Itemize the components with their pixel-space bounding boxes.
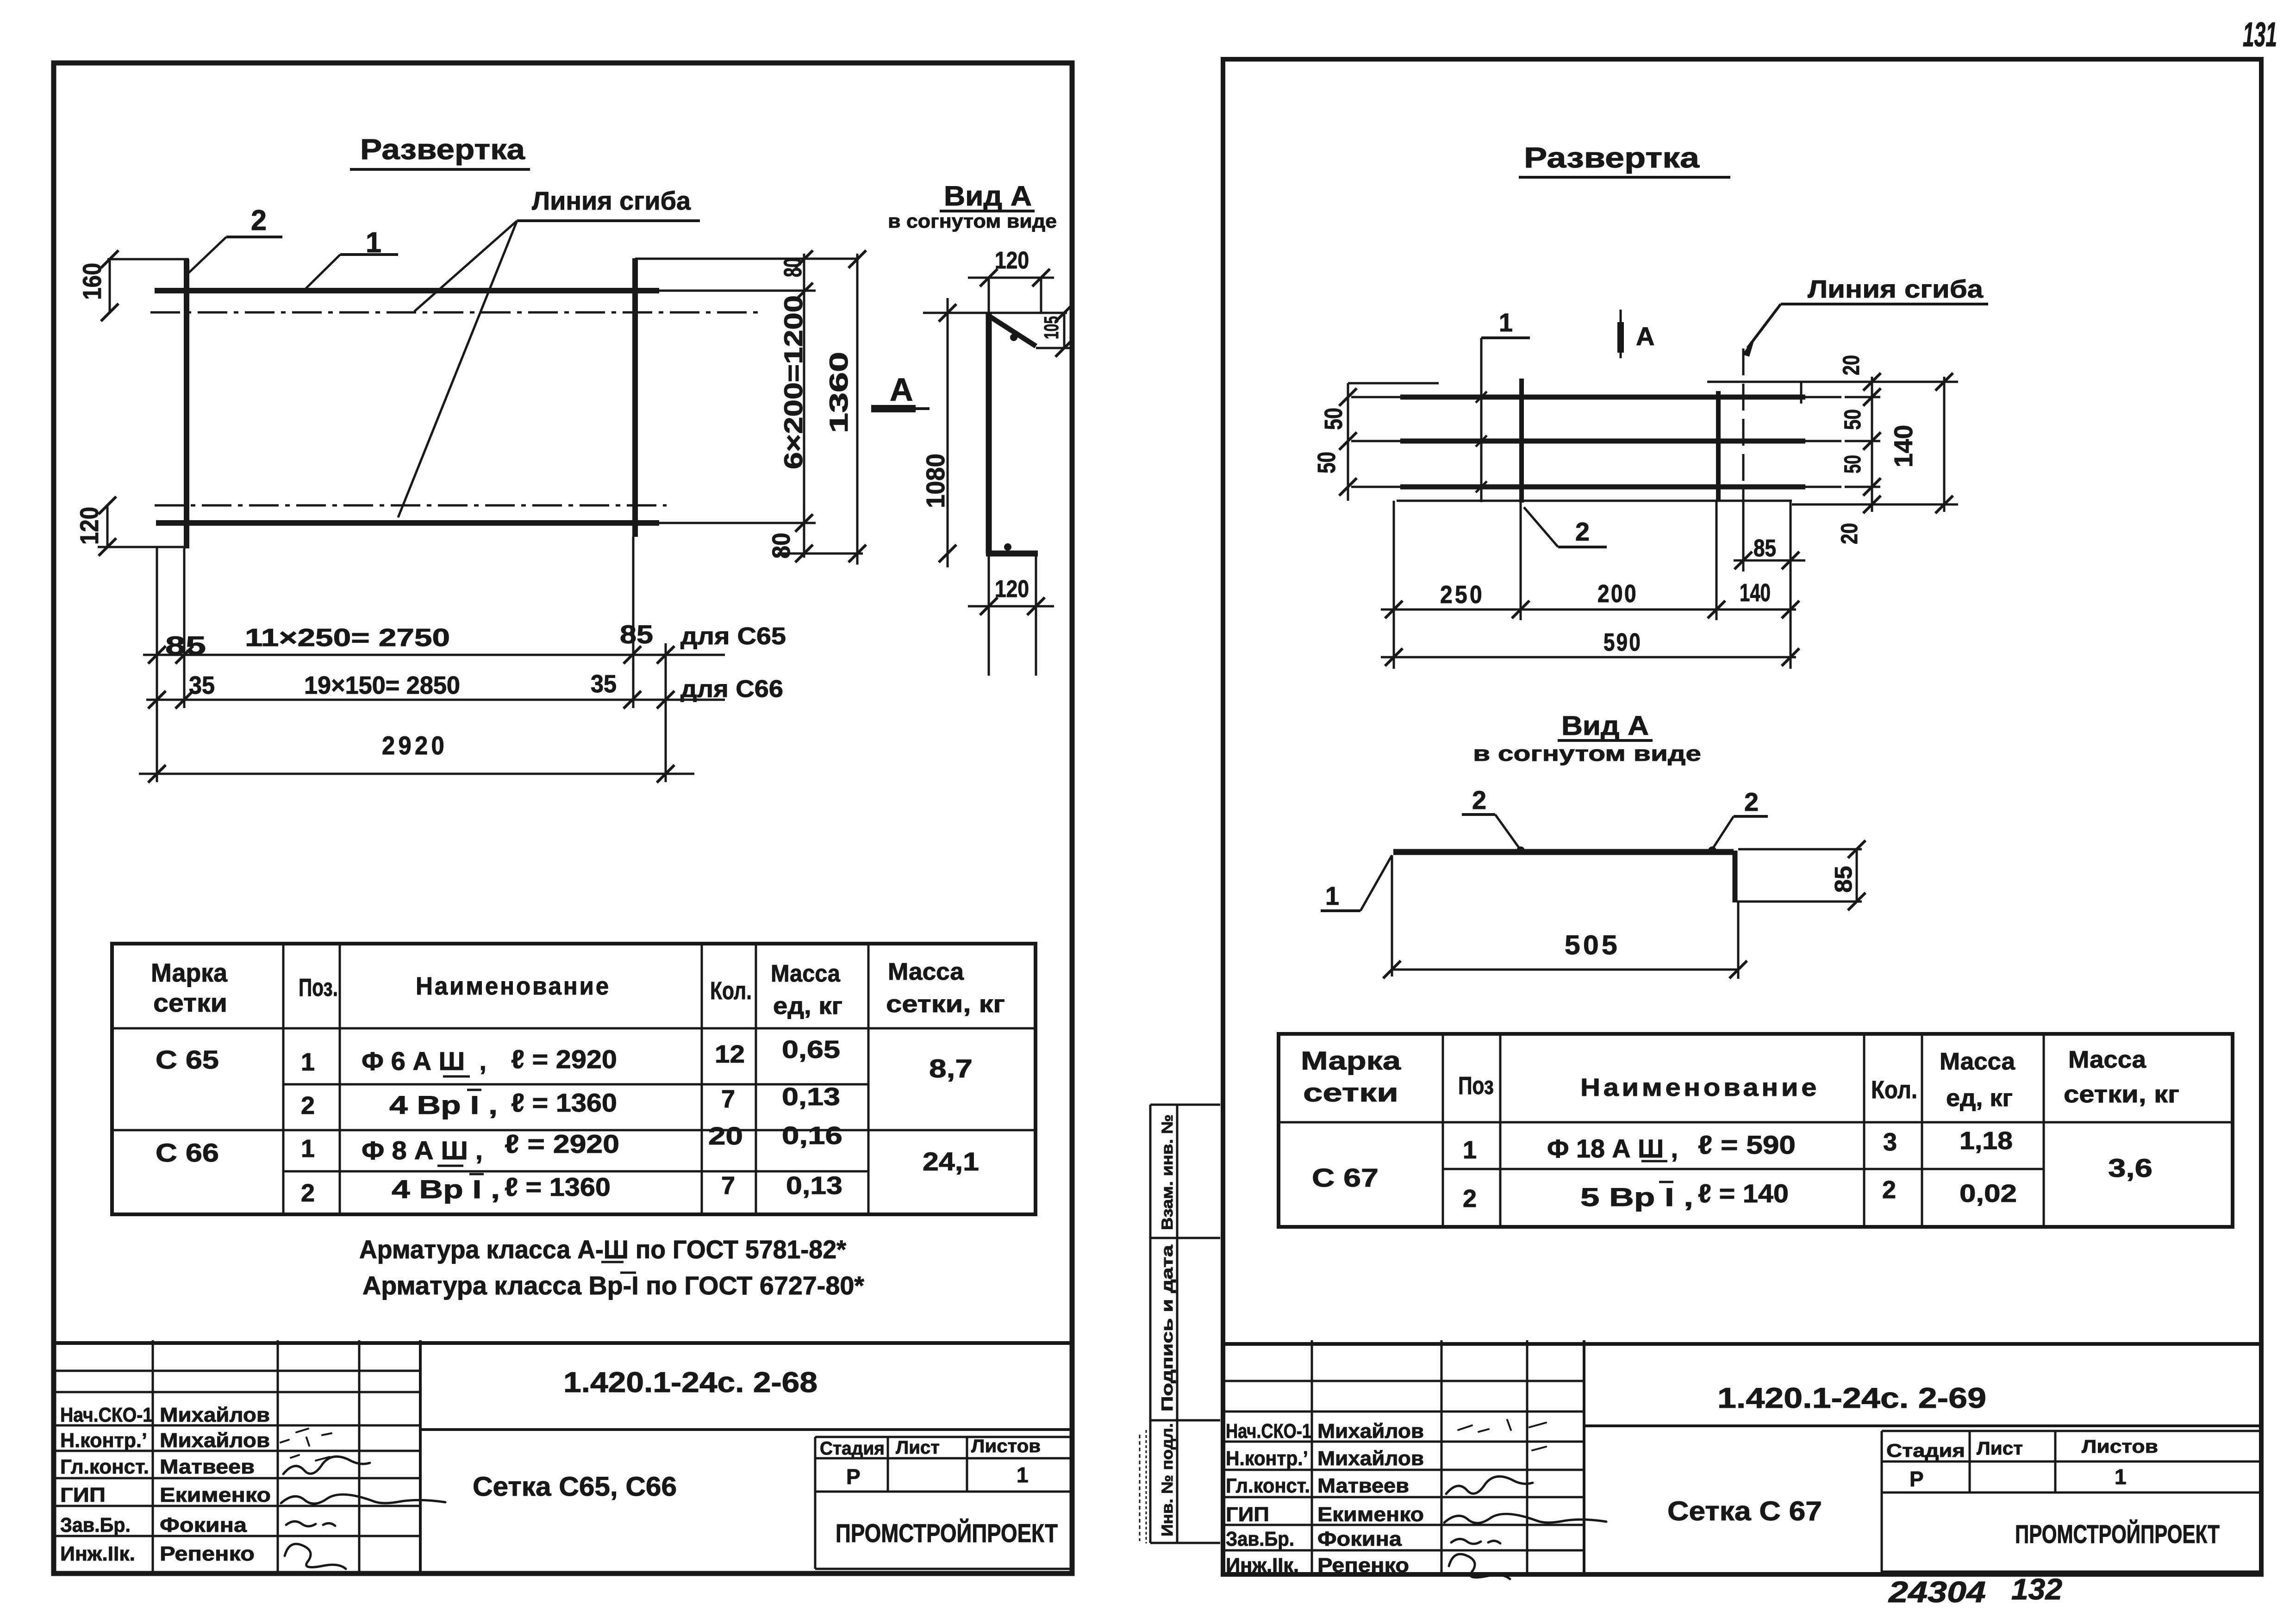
svg-text:140: 140 — [1740, 579, 1771, 607]
svg-text:132: 132 — [2011, 1573, 2062, 1606]
svg-text:Развертка: Развертка — [1524, 142, 1700, 174]
svg-text:Р: Р — [846, 1465, 861, 1489]
svg-text:0,16: 0,16 — [782, 1122, 842, 1150]
svg-text:для С66: для С66 — [680, 676, 783, 703]
svg-text:590: 590 — [1603, 628, 1642, 656]
svg-text:2: 2 — [1463, 1185, 1477, 1213]
svg-text:12: 12 — [715, 1040, 745, 1068]
title block sheet 2 stage box — [1882, 1430, 2261, 1432]
svg-text:2: 2 — [251, 205, 267, 236]
svg-text:Екименко: Екименко — [1317, 1503, 1424, 1526]
svg-text:Р: Р — [1909, 1467, 1924, 1491]
sheet 2 border frame — [1223, 59, 2261, 1574]
svg-text:Ф 18 А Ш ,: Ф 18 А Ш , — [1547, 1134, 1678, 1163]
svg-text:А: А — [1636, 322, 1654, 351]
svg-text:сетки, кг: сетки, кг — [886, 991, 1005, 1018]
bent view: bottom leg — [986, 551, 1038, 557]
svg-text:Гл.конст.: Гл.конст. — [60, 1455, 149, 1478]
svg-text:4 Вр I ,: 4 Вр I , — [389, 1090, 498, 1119]
svg-text:ℓ = 140: ℓ = 140 — [1698, 1179, 1789, 1208]
svg-text:ℓ = 2920: ℓ = 2920 — [511, 1045, 617, 1074]
svg-text:Масса: Масса — [888, 958, 964, 985]
title block sheet 2 doc number cell — [1584, 1424, 2261, 1427]
svg-text:20: 20 — [1836, 523, 1862, 544]
svg-text:1,18: 1,18 — [1959, 1127, 2013, 1155]
svg-text:1080: 1080 — [921, 454, 950, 508]
svg-text:131: 131 — [2243, 15, 2277, 54]
svg-text:5 Вр I ,: 5 Вр I , — [1580, 1182, 1693, 1212]
wire 2 right vertical bar — [632, 258, 638, 537]
svg-text:Сетка С 67: Сетка С 67 — [1667, 1496, 1822, 1526]
svg-text:Зав.Бр.: Зав.Бр. — [1226, 1528, 1294, 1550]
sheet 2 fold line (dashed) — [1742, 348, 1745, 502]
svg-text:Матвеев: Матвеев — [1317, 1474, 1409, 1497]
dim row 85 / 11x250=2750 / 85 (для С65) — [143, 654, 725, 656]
svg-text:2: 2 — [301, 1179, 315, 1207]
svg-text:Н.контр.’: Н.контр.’ — [1226, 1447, 1308, 1470]
svg-text:Масса: Масса — [1940, 1048, 2015, 1075]
svg-text:85: 85 — [165, 631, 206, 660]
svg-text:2: 2 — [1882, 1176, 1896, 1204]
svg-text:С 66: С 66 — [156, 1138, 219, 1167]
inv strip boxes — [1150, 1104, 1220, 1106]
sheet 2 dim row 250/200/140 — [1381, 609, 1796, 611]
svg-text:Инж.IIк.: Инж.IIк. — [60, 1542, 135, 1565]
svg-text:Поз: Поз — [1458, 1072, 1494, 1100]
wire 2 left vertical bar — [184, 259, 189, 548]
svg-text:1: 1 — [1325, 881, 1339, 910]
svg-text:ГИП: ГИП — [60, 1484, 106, 1506]
svg-text:4 Вр I ,: 4 Вр I , — [392, 1175, 500, 1204]
svg-text:Поз.: Поз. — [299, 974, 338, 1001]
svg-text:Фокина: Фокина — [160, 1514, 247, 1536]
svg-text:50: 50 — [1840, 455, 1865, 473]
svg-text:11×250= 2750: 11×250= 2750 — [245, 624, 450, 652]
title block sheet 1 stage box — [815, 1436, 1073, 1438]
fold line top (dash-dot) — [150, 311, 759, 314]
sheet 2 dims right (20/50/50/20) — [1801, 381, 1958, 383]
svg-text:Взам. инв. №: Взам. инв. № — [1159, 1114, 1176, 1230]
svg-text:2: 2 — [301, 1092, 315, 1119]
svg-text:ПРОМСТРОЙПРОЕКТ: ПРОМСТРОЙПРОЕКТ — [836, 1518, 1058, 1548]
bent view: dim 120 bottom — [988, 553, 990, 676]
svg-text:250: 250 — [1440, 581, 1485, 609]
svg-text:1: 1 — [1499, 308, 1513, 337]
svg-text:2: 2 — [1744, 787, 1759, 816]
sheet 2 dims left (50/50) — [1347, 383, 1349, 501]
sheet 2 plate edges — [1348, 382, 1439, 385]
svg-text:80: 80 — [767, 533, 795, 559]
svg-text:20: 20 — [708, 1122, 743, 1150]
svg-text:120: 120 — [995, 247, 1029, 274]
svg-text:50: 50 — [1840, 409, 1865, 430]
svg-text:50: 50 — [1313, 452, 1341, 473]
title block sheet 2 frame — [1223, 1342, 2261, 1346]
title block sheet 1 doc number cell — [420, 1428, 1073, 1431]
svg-text:1: 1 — [1463, 1136, 1477, 1164]
svg-text:Инж.IIк.: Инж.IIк. — [1226, 1554, 1299, 1577]
svg-text:Михайлов: Михайлов — [160, 1429, 270, 1452]
svg-text:24,1: 24,1 — [923, 1147, 979, 1176]
svg-text:Репенко: Репенко — [160, 1542, 255, 1565]
svg-text:С 67: С 67 — [1312, 1163, 1379, 1192]
spec table sheet 1 — [112, 944, 1036, 1214]
svg-text:ед, кг: ед, кг — [773, 993, 842, 1020]
svg-text:Зав.Бр.: Зав.Бр. — [60, 1514, 131, 1536]
svg-text:Листов: Листов — [971, 1436, 1041, 1456]
svg-text:ℓ = 2920: ℓ = 2920 — [505, 1129, 619, 1158]
svg-text:505: 505 — [1565, 930, 1620, 960]
bottom dim extension lines — [156, 547, 158, 782]
svg-text:Арматура класса Вр-I по ГОСТ 6: Арматура класса Вр-I по ГОСТ 6727-80* — [362, 1271, 864, 1300]
svg-text:Лист: Лист — [1977, 1438, 2023, 1459]
stamp marks left of strip — [1139, 1435, 1141, 1541]
svg-text:Стадия: Стадия — [1886, 1441, 1965, 1461]
svg-text:1: 1 — [301, 1048, 315, 1076]
svg-text:1360: 1360 — [824, 352, 853, 433]
svg-text:80: 80 — [779, 258, 807, 277]
sheet 2 bottom extension lines — [1393, 501, 1395, 669]
svg-text:0,13: 0,13 — [782, 1083, 840, 1111]
sheet 2 bent view extensions — [1391, 855, 1393, 976]
dimension 120 left — [106, 505, 109, 547]
svg-text:160: 160 — [77, 263, 106, 300]
svg-text:Нач.СКО-1: Нач.СКО-1 — [1226, 1420, 1311, 1443]
svg-text:Масса: Масса — [771, 960, 841, 987]
svg-text:Кол.: Кол. — [1871, 1076, 1917, 1104]
wire 1 bottom horizontal bar — [156, 520, 659, 526]
svg-text:сетки, кг: сетки, кг — [2064, 1081, 2179, 1108]
svg-text:Линия сгиба: Линия сгиба — [1808, 275, 1984, 303]
svg-text:Линия сгиба: Линия сгиба — [532, 186, 691, 215]
svg-text:Ф 8 А Ш ,: Ф 8 А Ш , — [362, 1136, 483, 1165]
svg-text:1: 1 — [1017, 1463, 1029, 1487]
svg-text:0,02: 0,02 — [1959, 1180, 2017, 1207]
signature scribbles sheet 1 — [283, 1456, 370, 1474]
svg-text:Ф 6 А Ш ,: Ф 6 А Ш , — [362, 1046, 487, 1076]
title block sheet 2 org box ПРОМСТРОЙПРОЕКТ — [1882, 1571, 2261, 1573]
svg-text:Стадия: Стадия — [820, 1438, 885, 1459]
bent view: top hook diagonal — [987, 315, 1036, 346]
svg-text:Гл.конст.: Гл.конст. — [1226, 1474, 1310, 1497]
svg-text:3,6: 3,6 — [2108, 1153, 2152, 1182]
svg-text:19×150= 2850: 19×150= 2850 — [304, 672, 460, 699]
svg-text:Михайлов: Михайлов — [160, 1404, 270, 1426]
svg-text:Наименование: Наименование — [416, 972, 611, 1000]
svg-text:35: 35 — [189, 672, 215, 699]
svg-text:Нач.СКО-1: Нач.СКО-1 — [60, 1404, 153, 1426]
svg-text:1: 1 — [2115, 1465, 2127, 1489]
sheet 1 mesh plate bottom edge — [98, 546, 185, 548]
fold line bottom (dash-dot) — [155, 504, 667, 507]
bent view: dim 1080 — [947, 298, 949, 567]
svg-text:Наименование: Наименование — [1580, 1074, 1820, 1101]
svg-text:Масса: Масса — [2068, 1046, 2146, 1073]
svg-text:Развертка: Развертка — [360, 134, 525, 166]
svg-text:1.420.1-24с. 2-68: 1.420.1-24с. 2-68 — [563, 1367, 817, 1399]
svg-text:Н.контр.’: Н.контр.’ — [60, 1429, 147, 1452]
title block sheet 1 frame — [54, 1341, 1073, 1345]
sheet 2 bent view bar — [1393, 849, 1734, 855]
svg-text:Фокина: Фокина — [1317, 1528, 1402, 1550]
svg-text:1.420.1-24с. 2-69: 1.420.1-24с. 2-69 — [1717, 1382, 1986, 1414]
sheet 2 dim 140 right — [1943, 377, 1946, 512]
signature scribbles sheet 2 — [1446, 1476, 1533, 1494]
svg-text:7: 7 — [721, 1172, 735, 1200]
svg-text:120: 120 — [995, 576, 1029, 603]
sheet 1 border frame — [54, 63, 1072, 1573]
svg-text:Екименко: Екименко — [160, 1484, 271, 1506]
svg-text:Марка: Марка — [1301, 1046, 1401, 1075]
svg-text:в согнутом виде: в согнутом виде — [888, 210, 1057, 232]
sheet 2 mesh bars (pos 1) — [1351, 396, 1400, 398]
bent view: top extension line — [923, 312, 1067, 314]
svg-text:2920: 2920 — [382, 731, 448, 760]
svg-text:0,13: 0,13 — [786, 1172, 842, 1200]
sheet 2 dim 590 overall — [1381, 656, 1796, 659]
svg-text:0,65: 0,65 — [782, 1036, 840, 1063]
svg-text:Репенко: Репенко — [1317, 1554, 1409, 1577]
svg-text:ℓ = 590: ℓ = 590 — [1698, 1130, 1796, 1159]
svg-text:Инв. № подл.: Инв. № подл. — [1159, 1423, 1176, 1536]
svg-text:6×200=1200: 6×200=1200 — [779, 295, 808, 469]
sheet 1 mesh plate top edge — [107, 258, 189, 261]
svg-text:1: 1 — [301, 1135, 315, 1163]
svg-text:85: 85 — [1830, 866, 1857, 893]
svg-text:2: 2 — [1575, 517, 1590, 546]
svg-text:для С65: для С65 — [680, 623, 786, 650]
sheet 2 section arrow A — [1620, 310, 1622, 358]
sheet 2 mesh vertical wires (pos 2) — [1519, 379, 1524, 503]
svg-text:7: 7 — [721, 1085, 735, 1113]
svg-text:Листов: Листов — [2082, 1436, 2158, 1457]
title block sheet 1 org box ПРОМСТРОЙПРОЕКТ — [815, 1568, 1073, 1570]
svg-text:20: 20 — [1838, 355, 1864, 375]
svg-text:сетки: сетки — [1303, 1078, 1398, 1107]
svg-text:85: 85 — [620, 620, 653, 649]
sheet 2 bent view dim 85 — [1856, 849, 1858, 902]
svg-text:ℓ = 1360: ℓ = 1360 — [511, 1088, 617, 1117]
svg-text:2: 2 — [1472, 785, 1486, 815]
svg-text:сетки: сетки — [153, 988, 227, 1017]
svg-text:Матвеев: Матвеев — [160, 1455, 255, 1478]
svg-text:85: 85 — [1753, 535, 1776, 562]
svg-text:140: 140 — [1889, 425, 1918, 467]
svg-text:35: 35 — [591, 670, 617, 698]
svg-text:Кол.: Кол. — [710, 977, 752, 1005]
svg-text:С 65: С 65 — [156, 1045, 219, 1074]
svg-text:120: 120 — [75, 507, 104, 545]
svg-text:50: 50 — [1320, 408, 1348, 430]
svg-text:Лист: Лист — [896, 1437, 940, 1458]
bent view: main bent bar — [986, 314, 992, 553]
dim row 2920 overall — [139, 773, 694, 775]
svg-text:А: А — [890, 372, 913, 408]
dimension lines right side (80 / 6x200=1200 / 80) — [803, 254, 805, 558]
svg-text:ℓ = 1360: ℓ = 1360 — [505, 1172, 611, 1201]
sheet 2 bent view dim 505 — [1392, 969, 1738, 971]
svg-text:200: 200 — [1597, 580, 1638, 608]
svg-text:Вид А: Вид А — [944, 180, 1032, 211]
dim row 35 / 19x150=2850 / 35 (для С66) — [146, 699, 725, 701]
svg-text:Михайлов: Михайлов — [1317, 1420, 1424, 1443]
svg-text:Михайлов: Михайлов — [1317, 1447, 1424, 1470]
svg-text:ед, кг: ед, кг — [1946, 1085, 2013, 1112]
svg-text:в согнутом виде: в согнутом виде — [1473, 741, 1701, 765]
svg-text:Марка: Марка — [151, 958, 228, 987]
svg-text:ПРОМСТРОЙПРОЕКТ: ПРОМСТРОЙПРОЕКТ — [2015, 1519, 2220, 1548]
spec table sheet 2 — [1279, 1034, 2233, 1227]
dimension 1360 right — [856, 254, 859, 565]
svg-text:24304: 24304 — [1888, 1575, 1986, 1609]
svg-text:3: 3 — [1883, 1128, 1897, 1156]
svg-text:Арматура класса А-Ш по ГОСТ 57: Арматура класса А-Ш по ГОСТ 5781-82* — [359, 1235, 846, 1264]
svg-text:8,7: 8,7 — [929, 1054, 973, 1083]
svg-text:ГИП: ГИП — [1226, 1503, 1269, 1526]
svg-text:Вид А: Вид А — [1561, 711, 1649, 741]
wire 1 top horizontal bar — [155, 288, 659, 293]
svg-text:Сетка С65, С66: Сетка С65, С66 — [473, 1472, 677, 1502]
svg-text:Подпись и дата: Подпись и дата — [1159, 1244, 1176, 1412]
sheet 2 dim 85 (fold to edge) — [1734, 560, 1805, 562]
dimension 160 left — [109, 259, 111, 312]
